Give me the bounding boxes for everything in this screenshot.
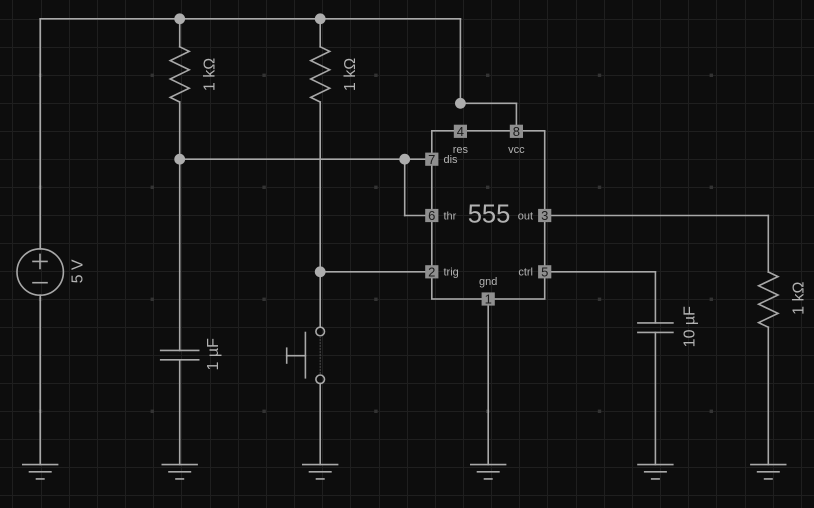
switch S1 actuator stem [287, 355, 306, 357]
svg-text:3: 3 [541, 208, 548, 223]
svg-text:vcc: vcc [508, 144, 525, 156]
ground (S1) [302, 465, 338, 479]
pin 4 [454, 125, 467, 138]
wire out drop to R3 [767, 216, 769, 273]
value labels rotated [69, 58, 807, 371]
ground symbols [22, 465, 787, 479]
wire pin1 to ground [487, 306, 489, 465]
switch S1 bottom contact [316, 375, 325, 384]
voltage source plus sign [33, 254, 47, 268]
switch S1 dashed contact link [319, 336, 321, 374]
major grid dots [39, 74, 713, 413]
pin 2 [425, 265, 438, 278]
svg-text:thr: thr [444, 210, 457, 222]
switch S1 actuator bar [304, 333, 306, 378]
svg-text:1 kΩ: 1 kΩ [342, 58, 359, 91]
wire switch to ground [319, 384, 321, 465]
switch S1 top contact [316, 327, 325, 336]
node rail-R2 [315, 13, 326, 24]
wire thr stub [405, 215, 426, 217]
svg-text:10 µF: 10 µF [682, 306, 699, 347]
IC pin name labels [444, 144, 534, 288]
pin 6 [425, 209, 438, 222]
capacitor C1 plates [161, 350, 199, 359]
wire rail to R1 [179, 19, 181, 47]
wire dis net [180, 158, 426, 160]
resistor R1 zigzag [170, 47, 189, 102]
voltage source minus sign [33, 282, 47, 284]
resistor R3 zigzag [759, 272, 778, 327]
wire vcc drop from rail [459, 19, 461, 104]
wire ctrl net [551, 271, 655, 273]
svg-text:7: 7 [428, 152, 435, 167]
ground (C1) [162, 465, 198, 479]
wire source to ground [39, 295, 41, 464]
svg-text:2: 2 [428, 264, 435, 279]
wire out net [551, 215, 768, 217]
switch S1 button cap [286, 348, 288, 363]
svg-text:1 kΩ: 1 kΩ [791, 282, 808, 315]
svg-text:1 kΩ: 1 kΩ [201, 58, 218, 91]
wire left rail to source [39, 19, 41, 249]
svg-text:4: 4 [457, 124, 464, 139]
svg-text:ctrl: ctrl [518, 267, 533, 279]
wire C2 to ground [654, 332, 656, 464]
node dis-thr [399, 154, 410, 165]
wire top rail [40, 18, 460, 20]
svg-text:out: out [518, 210, 533, 222]
IC U1 555 body box [432, 131, 545, 299]
node vcc corner [455, 98, 466, 109]
svg-text:6: 6 [428, 208, 435, 223]
wire R1 to C1 [179, 102, 181, 350]
wire ctrl drop to C2 [654, 272, 656, 323]
pin 8 [510, 125, 523, 138]
wire rail to R2 [319, 19, 321, 47]
svg-text:5: 5 [541, 264, 548, 279]
pin squares [425, 124, 551, 307]
wire vcc to pin8 [515, 103, 517, 124]
wire trig net [320, 271, 425, 273]
pin 1 [482, 292, 495, 305]
pin 3 [538, 209, 551, 222]
svg-text:trig: trig [444, 267, 459, 279]
wire R2 to switch [319, 102, 321, 327]
svg-text:dis: dis [444, 154, 459, 166]
svg-text:1 µF: 1 µF [205, 338, 222, 371]
wire dis-thr link vertical [404, 159, 406, 215]
wire R3 to ground [767, 327, 769, 464]
resistor R2 zigzag [311, 47, 330, 102]
pin 7 [425, 153, 438, 166]
svg-text:555: 555 [468, 201, 511, 229]
svg-text:8: 8 [513, 124, 520, 139]
wire vcc link horizontal [460, 102, 516, 104]
wire C1 to ground [179, 360, 181, 465]
node rail-R1 [174, 13, 185, 24]
svg-text:gnd: gnd [479, 276, 497, 288]
ground (C2) [637, 465, 673, 479]
capacitor C2 plates [638, 323, 673, 333]
svg-text:1: 1 [485, 292, 492, 307]
svg-text:5 V: 5 V [69, 259, 86, 283]
ground (R3) [750, 465, 786, 479]
node dis-C1 [174, 154, 185, 165]
junction dots [174, 13, 466, 277]
voltage source V1 circle [17, 249, 63, 295]
node trig-switch [315, 266, 326, 277]
ground (V1) [22, 465, 58, 479]
ground (U1 pin1) [470, 465, 506, 479]
pin 5 [538, 265, 551, 278]
